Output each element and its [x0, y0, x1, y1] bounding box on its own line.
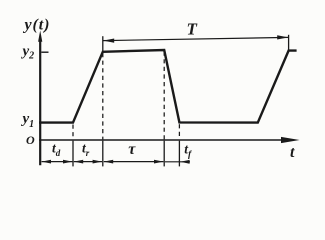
svg-text:τ: τ	[128, 141, 136, 158]
svg-text:t: t	[290, 144, 295, 161]
svg-text:y(t): y(t)	[23, 17, 51, 34]
svg-text:T: T	[187, 19, 198, 38]
svg-text:O: O	[26, 133, 35, 147]
